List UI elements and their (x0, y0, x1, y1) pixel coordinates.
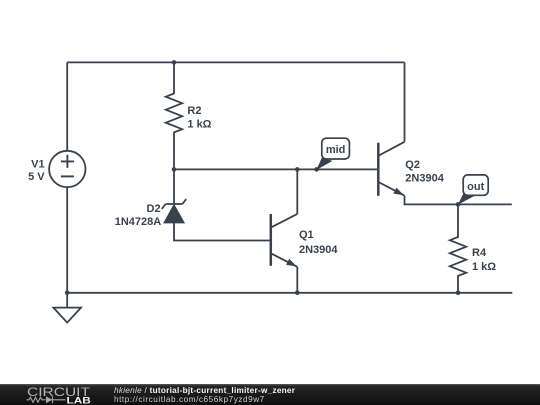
svg-text:LAB: LAB (67, 395, 91, 405)
wire left upper (V1 to top rail) (66, 62, 68, 151)
zener diode D2 (162, 199, 186, 223)
svg-text:Q1: Q1 (299, 229, 314, 241)
svg-text:R2: R2 (187, 105, 201, 117)
node out flag (458, 175, 488, 205)
svg-text:1 kΩ: 1 kΩ (472, 261, 496, 273)
wire Q1 collector vertical (296, 169, 298, 214)
wire Q1 emitter vertical (296, 267, 298, 293)
svg-text:mid: mid (326, 144, 346, 156)
wire out node horizontal (405, 196, 512, 205)
junction ground (65, 291, 70, 296)
footer text (114, 386, 295, 405)
voltage source V1 (49, 151, 85, 187)
svg-text:2N3904: 2N3904 (405, 173, 444, 185)
junction top R2 (172, 60, 177, 65)
wire Q2 collector vertical (404, 62, 406, 141)
wire top rail (67, 61, 404, 63)
junction mid flag anchor (314, 167, 319, 172)
footer bar (0, 384, 540, 405)
svg-text:R4: R4 (472, 247, 487, 259)
wire D2 anode to Q1 base (174, 223, 271, 241)
CircuitLab logo (0, 384, 100, 405)
resistor R2 (166, 62, 182, 169)
svg-text:5 V: 5 V (28, 171, 45, 183)
node mid flag (316, 138, 349, 170)
svg-text:V1: V1 (31, 159, 44, 171)
wire bottom ground rail (67, 292, 512, 294)
svg-text:2N3904: 2N3904 (299, 244, 338, 256)
junction Q1 collector (295, 167, 300, 172)
transistor Q2 (378, 142, 404, 196)
transistor Q1 (271, 214, 298, 267)
resistor R4 (450, 204, 466, 292)
svg-text:D2: D2 (147, 203, 161, 215)
junction R4 bottom rail (456, 291, 461, 296)
svg-text:1N4728A: 1N4728A (115, 216, 162, 228)
ground (53, 293, 81, 323)
svg-text:out: out (467, 181, 484, 193)
junction out R4 top (456, 202, 461, 207)
wire D2 cathode to mid node (173, 169, 175, 204)
wire mid node rail (174, 168, 378, 170)
wire left lower (V1 to ground rail) (66, 187, 68, 292)
junction Q1 emitter rail (295, 291, 300, 296)
svg-text:Q2: Q2 (405, 159, 420, 171)
junction mid R2/D2 (172, 167, 177, 172)
svg-text:1 kΩ: 1 kΩ (187, 119, 211, 131)
